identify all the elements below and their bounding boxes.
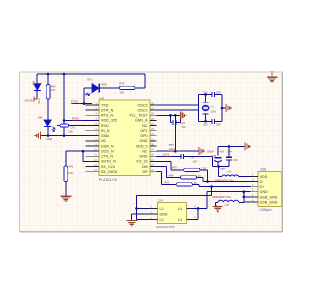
- svg-text:C45: C45: [211, 154, 216, 158]
- svg-text:L41: L41: [227, 170, 232, 174]
- label USBjack: [259, 208, 272, 212]
- svg-text:USBjack: USBjack: [259, 208, 272, 212]
- wire OSC1: [156, 109, 198, 111]
- node R45 D-: [206, 180, 209, 183]
- power port U5V: [24, 97, 37, 103]
- svg-text:GP0: GP0: [140, 134, 147, 138]
- svg-text:D42: D42: [38, 115, 43, 119]
- ground below R41: [60, 196, 71, 201]
- svg-text:104: 104: [193, 160, 198, 164]
- inductor L42: [216, 200, 244, 207]
- IC U4 pin stubs: [86, 105, 157, 172]
- svg-text:RED: RED: [47, 137, 53, 141]
- svg-text:PTXD: PTXD: [71, 100, 78, 104]
- svg-text:C41: C41: [70, 125, 75, 129]
- svg-text:D40: D40: [32, 80, 36, 85]
- svg-text:104: 104: [227, 150, 232, 154]
- svg-text:+6V: +6V: [220, 150, 225, 154]
- wire usb+ U5V2: [156, 115, 198, 151]
- svg-text:R45: R45: [172, 166, 177, 170]
- svg-text:DP: DP: [142, 170, 148, 174]
- svg-text:PLL_TEST: PLL_TEST: [130, 114, 149, 118]
- svg-text:NC: NC: [101, 139, 107, 143]
- svg-text:D+: D+: [260, 185, 265, 189]
- capacitor C42: [203, 90, 222, 97]
- svg-text:12M: 12M: [211, 109, 216, 113]
- wire top rail U3V: [37, 74, 145, 83]
- svg-text:RED: RED: [38, 98, 41, 103]
- label FRXD: [72, 117, 82, 121]
- svg-text:R46: R46: [169, 174, 174, 178]
- node usbgnd bus: [243, 190, 246, 193]
- LED D42: [38, 115, 56, 132]
- capacitor C43: [203, 119, 222, 127]
- svg-text:L3: L3: [178, 218, 182, 222]
- label USB: [260, 168, 267, 172]
- svg-text:USB_GND: USB_GND: [260, 200, 278, 204]
- node U5V2: [174, 150, 177, 153]
- svg-text:EE_DATA: EE_DATA: [101, 170, 118, 174]
- svg-text:TXD: TXD: [101, 103, 109, 107]
- svg-text:C47: C47: [190, 155, 195, 159]
- wire esd gnd pin: [132, 214, 150, 221]
- wire DCD SHTD net: [66, 151, 99, 161]
- svg-text:R41: R41: [69, 165, 74, 169]
- svg-text:NC: NC: [142, 124, 148, 128]
- wire esd right gnd: [192, 192, 207, 220]
- label ferrite 1: [215, 180, 235, 182]
- wire D- line: [203, 181, 250, 183]
- label PL2303-HX: [99, 178, 118, 182]
- node pll a: [169, 114, 172, 117]
- svg-text:GND: GND: [139, 139, 148, 143]
- svg-text:R42: R42: [120, 82, 125, 86]
- node x64 pin4: [63, 119, 66, 122]
- inductor L41: [219, 167, 251, 177]
- svg-text:OSC2: OSC2: [138, 103, 148, 107]
- svg-text:CTS_N: CTS_N: [101, 155, 113, 159]
- svg-text:R47: R47: [164, 181, 169, 185]
- node gnd bus mid: [243, 196, 246, 199]
- svg-text:U5V2: U5V2: [169, 147, 176, 151]
- svg-text:C44: C44: [180, 121, 185, 125]
- ground esd: [126, 221, 137, 226]
- resistor C41: [57, 124, 99, 134]
- wire esd left bus: [137, 195, 150, 219]
- svg-text:D41: D41: [87, 78, 92, 82]
- ground right of crystal: [226, 104, 231, 112]
- resistor R47: [156, 172, 198, 187]
- wire PLL_TEST: [156, 114, 180, 116]
- svg-text:EE_CLK: EE_CLK: [101, 165, 116, 169]
- ground top right: [267, 71, 278, 83]
- svg-text:33P: 33P: [216, 90, 221, 94]
- ground arrow left: [35, 132, 40, 140]
- svg-text:GP1: GP1: [140, 129, 147, 133]
- wire D42 cathode: [47, 127, 49, 136]
- label U5V2: [169, 147, 179, 151]
- label usb-: [221, 168, 226, 171]
- node crystal bottom: [204, 120, 207, 123]
- wire rail drop x64: [63, 74, 65, 136]
- ESD diode array J24 pins and pin names: [149, 207, 196, 222]
- wire D41 anode: [84, 88, 92, 104]
- svg-text:usb+: usb+: [169, 143, 175, 147]
- svg-text:ESDA6V1W5: ESDA6V1W5: [157, 225, 175, 229]
- label ferrite 2: [212, 197, 232, 199]
- svg-text:GND_A: GND_A: [135, 119, 148, 123]
- svg-text:GND: GND: [260, 190, 269, 194]
- svg-text:SHTD_N: SHTD_N: [101, 160, 116, 164]
- wire rail right drop: [144, 74, 146, 88]
- svg-text:L4: L4: [178, 207, 182, 211]
- capacitor C44: [170, 115, 186, 129]
- resistor R45: [156, 161, 207, 181]
- capacitor C45 electrolytic: [207, 150, 225, 167]
- svg-text:U5V1: U5V1: [163, 152, 170, 156]
- node esd D+: [210, 185, 213, 188]
- wire D40 cathode: [36, 91, 38, 99]
- svg-text:DCD_N: DCD_N: [101, 149, 114, 153]
- svg-text:DM: DM: [142, 165, 148, 169]
- node esd L1: [135, 207, 138, 210]
- connector USB body: [258, 172, 281, 207]
- svg-text:RXD: RXD: [101, 124, 109, 128]
- label RED: [47, 137, 53, 141]
- label usb+: [169, 143, 175, 147]
- label ESDA6V1W5: [157, 225, 175, 229]
- label PTXD: [71, 100, 81, 104]
- node rail-R40: [47, 73, 50, 76]
- wire FRXD pin4: [64, 119, 99, 121]
- resistor R40: [46, 74, 56, 99]
- svg-text:RED: RED: [101, 83, 107, 87]
- wire R42 to D41: [99, 87, 119, 89]
- svg-text:3.3K: 3.3K: [68, 171, 74, 175]
- label J24: [158, 199, 163, 203]
- ground U5V2: [199, 147, 204, 155]
- svg-text:33P: 33P: [216, 123, 221, 127]
- wire cap top rail: [218, 146, 245, 155]
- svg-text:U4: U4: [100, 96, 104, 100]
- svg-text:L42: L42: [225, 203, 230, 207]
- node x64-gnd: [63, 134, 66, 137]
- node pll b: [174, 114, 177, 117]
- node C46 top: [228, 145, 231, 148]
- node crystal top: [204, 93, 207, 96]
- svg-text:L2: L2: [160, 218, 164, 222]
- wire esd feed: [137, 187, 212, 196]
- resistor R41: [64, 151, 74, 181]
- svg-text:U5V(5): U5V(5): [24, 98, 33, 102]
- svg-text:PL2303-HX: PL2303-HX: [99, 178, 118, 182]
- svg-text:100uF: 100uF: [207, 150, 215, 154]
- svg-text:GND: GND: [139, 155, 148, 159]
- svg-text:GND: GND: [101, 134, 110, 138]
- svg-text:104: 104: [182, 125, 187, 129]
- node crystal right: [221, 107, 224, 110]
- ground L42: [213, 206, 223, 211]
- sheet background: [20, 72, 283, 232]
- capacitor C46: [226, 146, 238, 166]
- label U5V1: [163, 152, 173, 156]
- wire PTXD: [72, 103, 93, 105]
- wire cap bottom rail: [213, 166, 229, 168]
- ESD diode array J24 body: [157, 203, 186, 224]
- svg-text:RI_N: RI_N: [101, 129, 110, 133]
- node DCD junction: [82, 150, 85, 153]
- svg-text:RTS_N: RTS_N: [101, 114, 113, 118]
- wire R40 to D42: [47, 99, 49, 120]
- svg-text:OSC1: OSC1: [138, 108, 148, 112]
- svg-text:C43: C43: [203, 123, 208, 127]
- LED D40: [32, 80, 41, 104]
- wire usb gnd line: [207, 191, 251, 193]
- capacitor C47: [181, 154, 197, 164]
- svg-text:10K: 10K: [51, 88, 56, 92]
- wire gnd bus vertical: [244, 192, 251, 202]
- label U4: [100, 96, 104, 100]
- wire OSC2: [156, 104, 198, 106]
- LED D41: [85, 78, 107, 97]
- wire GND net RED: [41, 135, 99, 137]
- svg-text:USB_GND: USB_GND: [260, 195, 278, 199]
- ground pll: [181, 111, 186, 119]
- node esd right: [197, 207, 200, 210]
- node rail-x64: [63, 73, 66, 76]
- wire D+ line: [199, 186, 251, 188]
- svg-text:FB9M0805P TH0s: FB9M0805P TH0s: [212, 197, 232, 199]
- wire crystal left leg: [199, 95, 212, 122]
- node D42-gnd: [47, 134, 50, 137]
- svg-text:Y1: Y1: [211, 104, 215, 108]
- svg-text:GND: GND: [160, 212, 168, 216]
- node L41 top: [217, 165, 220, 168]
- resistor R46: [156, 167, 203, 182]
- svg-text:VDD_325: VDD_325: [101, 119, 117, 123]
- svg-text:10K: 10K: [120, 90, 125, 94]
- svg-text:DSR_N: DSR_N: [101, 144, 114, 148]
- connector USB pins: [251, 175, 278, 205]
- resistor R42: [119, 82, 145, 95]
- wire crystal right leg: [222, 95, 226, 122]
- svg-text:VDD_5: VDD_5: [136, 144, 148, 148]
- svg-text:J24: J24: [158, 199, 163, 203]
- crystal Y1: [202, 95, 215, 122]
- IC U4 PL2303-HX body: [99, 100, 150, 176]
- svg-text:VO_33: VO_33: [136, 160, 147, 164]
- svg-text:10K: 10K: [68, 130, 73, 134]
- node PTXD: [83, 102, 86, 105]
- svg-text:VDD: VDD: [260, 175, 268, 179]
- svg-text:C46: C46: [233, 158, 238, 162]
- IC U4 pin names and pin numbers: [94, 103, 154, 174]
- ground top rail: [245, 142, 250, 150]
- wire R41 to ground: [65, 182, 67, 197]
- svg-text:NC: NC: [142, 149, 148, 153]
- svg-text:USB: USB: [260, 168, 267, 172]
- svg-text:DTR_N: DTR_N: [101, 108, 114, 112]
- wire U5V1: [156, 156, 212, 166]
- svg-text:L1: L1: [160, 207, 164, 211]
- svg-text:usb-: usb-: [221, 168, 226, 171]
- svg-text:1.5K: 1.5K: [201, 167, 207, 171]
